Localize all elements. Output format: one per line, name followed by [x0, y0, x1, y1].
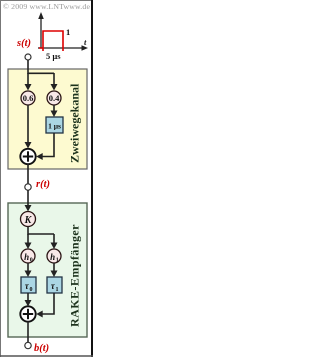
wire h1 to tau1 — [53, 263, 55, 272]
svg-text:© 2009 www.LNTwww.de: © 2009 www.LNTwww.de — [3, 2, 90, 11]
svg-text:s(t): s(t) — [16, 38, 31, 49]
gain 0.6 — [21, 91, 35, 105]
wire delay to adder — [42, 133, 54, 157]
wire 0.4 to delay — [53, 105, 55, 112]
wire h0 to tau0 — [27, 263, 29, 272]
svg-text:5 µs: 5 µs — [46, 51, 61, 61]
wire into h0 — [27, 234, 29, 244]
Zweiwegekanal box — [8, 69, 87, 169]
wire into h1 — [53, 234, 55, 244]
wire r(t) node to K — [27, 190, 29, 206]
svg-text:0: 0 — [30, 287, 33, 293]
svg-text:1 µs: 1 µs — [48, 122, 61, 131]
wire adder2 to b(t) node — [27, 322, 29, 343]
svg-text:1: 1 — [66, 27, 70, 37]
svg-text:0: 0 — [30, 258, 33, 264]
svg-text:1: 1 — [56, 258, 59, 264]
svg-text:r(t): r(t) — [36, 179, 50, 190]
pulse plot vertical axis — [40, 18, 42, 48]
adder channel — [20, 149, 35, 164]
delay tau0 — [21, 277, 36, 293]
source node — [25, 54, 31, 60]
svg-text:h: h — [24, 252, 29, 262]
wire 0.6 to adder — [27, 105, 29, 144]
svg-text:0.4: 0.4 — [49, 93, 60, 103]
wire tau0 to adder2 — [27, 293, 29, 302]
coefficient h0 — [21, 249, 35, 263]
delay tau1 — [47, 277, 62, 293]
svg-text:Zweiwegekanal: Zweiwegekanal — [68, 83, 82, 163]
node r(t) — [25, 184, 31, 190]
svg-text:b(t): b(t) — [34, 343, 49, 354]
adder receiver — [20, 306, 35, 321]
frame border — [0, 0, 2, 357]
wire source node to channel split — [27, 60, 29, 74]
gain K — [21, 212, 36, 227]
wire into 0.6 — [27, 73, 29, 85]
svg-text:1: 1 — [56, 287, 59, 293]
node b(t) — [25, 342, 31, 348]
coefficient h1 — [47, 249, 61, 263]
red rectangular pulse — [39, 31, 63, 51]
svg-text:K: K — [24, 215, 33, 226]
gain 0.4 — [47, 91, 61, 105]
wire tau1 to adder2 — [42, 293, 54, 314]
delay 1 us — [46, 117, 63, 133]
wire split horizontal — [28, 72, 54, 74]
wire adder to r(t) node — [27, 164, 29, 184]
wire K to split — [27, 227, 29, 235]
RAKE-Empfaenger box — [8, 203, 87, 337]
svg-text:0.6: 0.6 — [23, 93, 34, 103]
svg-text:RAKE-Empfänger: RAKE-Empfänger — [68, 224, 82, 327]
pulse plot horizontal axis — [38, 47, 83, 49]
svg-text:h: h — [50, 252, 55, 262]
wire into 0.4 — [53, 73, 55, 85]
